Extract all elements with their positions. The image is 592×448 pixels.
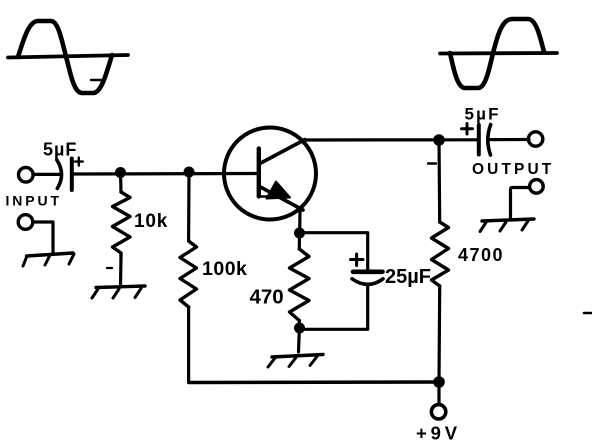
capacitor C3 25uF curved plate [352, 279, 383, 285]
wire input to C1 [33, 173, 61, 176]
transistor Q1 emitter arrow [267, 182, 291, 199]
wire R3 node to ground [297, 329, 301, 352]
wire collector node [303, 138, 478, 141]
wire bottom rail [189, 380, 439, 384]
capacitor C2 5uF curved plate [488, 125, 491, 156]
ground output [482, 219, 534, 221]
stray dash right edge [584, 312, 591, 315]
terminal output signal [528, 132, 542, 146]
wire supply terminal [437, 382, 440, 404]
node collector junction [433, 134, 445, 146]
resistor R4 4700 [432, 222, 449, 286]
transistor Q1 base bar [257, 149, 261, 197]
wire output ground terminal [511, 188, 530, 219]
wire R4 top [437, 140, 441, 222]
transistor Q1 stray dash [261, 195, 268, 197]
capacitor C1 5uF straight plate [70, 159, 74, 191]
capacitor C1 5uF curved plate [57, 160, 62, 188]
wire R2 top [187, 172, 191, 241]
resistor R2 100k [180, 241, 197, 307]
wire C3 bottom to R3 bottom [300, 285, 368, 330]
svg-text:10k: 10k [134, 211, 168, 232]
node base-R1 junction [115, 167, 126, 178]
svg-text:4700: 4700 [458, 245, 504, 265]
resistor R3 470 [290, 249, 310, 321]
input waveform tick [91, 79, 104, 81]
wire R2 bottom to rail [187, 307, 190, 383]
svg-text:100k: 100k [202, 258, 247, 280]
transistor Q1 emitter line [260, 187, 304, 211]
terminal +9V [431, 405, 445, 419]
stray dash near R4 wire [428, 162, 436, 164]
capacitor C2 polarity plus [462, 124, 473, 135]
terminal output ground [530, 180, 544, 194]
input waveform axis [8, 55, 128, 58]
svg-text:470: 470 [250, 286, 284, 309]
svg-text:5µF: 5µF [43, 140, 77, 160]
resistor R1 10k [113, 192, 131, 256]
capacitor C1 polarity plus [75, 158, 83, 166]
stray dash near R1 [107, 267, 112, 269]
transistor Q1 circle [224, 128, 316, 220]
wire emitter node to C3 top [300, 233, 368, 271]
terminal input signal [19, 168, 34, 183]
output waveform sine [450, 19, 544, 88]
capacitor C2 5uF straight plate [477, 125, 481, 155]
svg-text:5µF: 5µF [465, 105, 501, 124]
svg-text:+9V: +9V [416, 423, 461, 444]
output waveform axis [440, 51, 557, 55]
wire C2 to output terminal [491, 138, 530, 141]
svg-text:INPUT: INPUT [6, 193, 63, 209]
svg-text:OUTPUT: OUTPUT [472, 161, 554, 178]
wire R1 top [119, 173, 123, 193]
capacitor C3 polarity plus [351, 254, 364, 266]
wire R4 bottom [437, 286, 441, 382]
wire R3 bottom [298, 321, 301, 329]
ground R3 [272, 355, 323, 358]
wire input ground terminal [33, 222, 53, 253]
node base-R2 junction [184, 167, 195, 178]
wire emitter to node [298, 208, 301, 233]
node emitter junction [294, 228, 305, 239]
wire R3 top [298, 233, 301, 249]
wire base node [72, 172, 259, 176]
wire R1 bottom [119, 256, 123, 286]
input waveform sine [18, 21, 112, 93]
svg-text:25µF: 25µF [385, 266, 431, 288]
ground input [27, 253, 74, 256]
node R3-C3 junction [294, 323, 305, 334]
node supply junction [433, 376, 445, 388]
transistor Q1 collector line [259, 140, 305, 165]
terminal input ground [18, 215, 33, 230]
capacitor C3 25uF straight plate [353, 269, 383, 274]
ground R1 [96, 286, 145, 288]
